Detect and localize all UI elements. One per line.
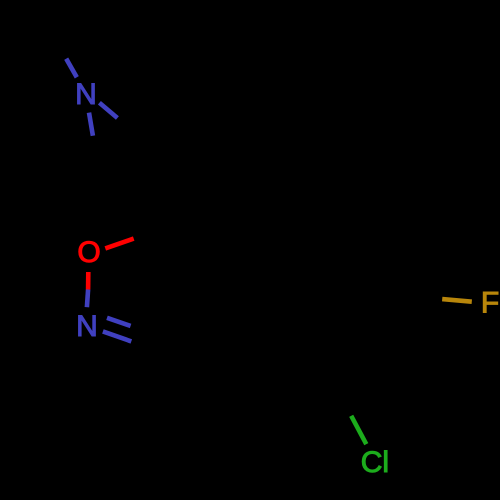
wire: O to C5 bond (red half) [105,239,133,249]
wire: amine N to C bond down (blue half) [89,113,93,136]
wire: O to N bond red half [86,272,91,290]
svg-text:Cl: Cl [361,446,389,479]
wire: O to N bond blue half [87,290,88,308]
wire: N=C3 double bond inner line (blue half) [107,318,131,326]
wire: amine N to C bond right (blue half) [99,103,117,118]
svg-text:O: O [77,236,100,269]
wire: C to F bond (goldenrod half) [442,299,472,302]
wire: methyl to amine N bond (blue half) [66,59,77,78]
svg-text:F: F [481,286,499,319]
svg-text:N: N [76,310,98,343]
wire: N=C3 double bond main line (blue half) [103,331,131,341]
wire: C to Cl bond (green half) [351,416,366,444]
svg-text:N: N [75,78,97,111]
